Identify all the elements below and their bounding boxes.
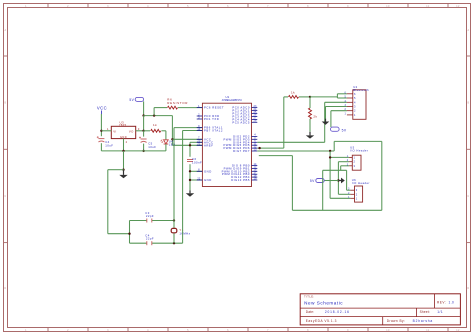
svg-text:GND: GND [204,169,212,173]
svg-text:2: 2 [348,192,350,195]
svg-text:6: 6 [227,5,229,8]
svg-text:9: 9 [347,329,349,332]
svg-text:16MHz: 16MHz [179,231,190,235]
svg-text:ATMEGA328P-PU: ATMEGA328P-PU [222,98,242,102]
svg-text:Bluetooth: Bluetooth [353,88,369,92]
svg-text:1: 1 [345,112,347,115]
svg-text:6: 6 [354,92,356,96]
svg-text:10uF: 10uF [148,145,156,149]
svg-text:7: 7 [267,329,269,332]
svg-text:VCC: VCC [97,106,107,111]
svg-text:6: 6 [227,329,229,332]
svg-text:DIG13 PB5: DIG13 PB5 [231,178,250,182]
svg-text:D: D [467,287,469,290]
svg-text:5V: 5V [342,128,347,132]
svg-text:3: 3 [347,163,349,166]
svg-text:1: 1 [107,127,109,131]
svg-text:10uF: 10uF [105,143,113,147]
svg-text:5: 5 [345,96,347,99]
svg-text:REV:: REV: [437,301,446,305]
svg-text:2: 2 [354,109,356,113]
svg-text:8: 8 [307,5,309,8]
svg-text:B2harsha: B2harsha [413,319,433,323]
svg-text:2: 2 [67,5,69,8]
svg-text:Sheet:: Sheet: [420,310,430,314]
svg-text:2: 2 [126,140,128,144]
svg-text:1k: 1k [291,90,295,94]
svg-text:PB7 XTAL2: PB7 XTAL2 [204,129,223,133]
svg-text:1: 1 [356,196,358,200]
svg-text:3: 3 [107,5,109,8]
svg-text:1: 1 [25,5,27,8]
svg-text:1: 1 [25,329,27,332]
svg-text:10: 10 [386,329,390,332]
svg-text:I\O Header: I\O Header [352,181,370,185]
svg-text:VO: VO [129,130,134,134]
svg-text:11: 11 [426,329,430,332]
svg-text:5V: 5V [310,179,315,183]
svg-text:11: 11 [426,5,430,8]
svg-text:LED: LED [169,143,176,147]
svg-text:C: C [467,195,469,198]
svg-text:3: 3 [345,104,347,107]
svg-text:2018-02-16: 2018-02-16 [325,310,350,314]
svg-text:3: 3 [356,188,358,192]
svg-text:TITLE:: TITLE: [304,295,314,299]
svg-text:1: 1 [347,155,349,158]
svg-text:4: 4 [147,5,149,8]
svg-text:3: 3 [354,164,356,168]
svg-text:EasyEDA V5.1.3: EasyEDA V5.1.3 [306,319,337,323]
svg-text:RESISTOR: RESISTOR [167,101,188,105]
svg-text:3: 3 [348,188,350,191]
svg-text:2: 2 [67,329,69,332]
svg-text:D: D [4,287,6,290]
svg-text:22pF: 22pF [146,214,154,218]
svg-text:4: 4 [345,100,347,103]
svg-text:1: 1 [348,196,350,199]
svg-text:28: 28 [254,120,257,123]
svg-text:PC5 ADC5: PC5 ADC5 [232,120,250,124]
svg-text:A: A [4,29,6,32]
svg-text:22: 22 [197,177,200,180]
svg-text:9: 9 [347,5,349,8]
svg-text:8: 8 [307,329,309,332]
svg-text:1: 1 [354,155,356,159]
svg-text:I\O Header: I\O Header [350,149,368,153]
svg-text:22pF: 22pF [146,237,154,241]
svg-text:2: 2 [345,108,347,111]
svg-text:2: 2 [356,192,358,196]
svg-text:19: 19 [254,177,257,180]
svg-text:6: 6 [345,91,347,94]
svg-text:4: 4 [147,329,149,332]
svg-text:2: 2 [354,160,356,164]
svg-text:VI: VI [113,130,117,134]
svg-text:5: 5 [187,329,189,332]
svg-text:4: 4 [354,100,356,104]
svg-text:B: B [4,102,6,105]
svg-text:5: 5 [354,96,356,100]
svg-text:PC6 RESET: PC6 RESET [204,106,224,110]
svg-text:1: 1 [354,113,356,117]
svg-text:3: 3 [138,127,140,131]
svg-text:New Schematic: New Schematic [304,301,343,306]
svg-text:10: 10 [197,128,200,131]
svg-text:Drawn By:: Drawn By: [387,319,406,323]
svg-text:AREF: AREF [204,143,213,147]
svg-text:1/1: 1/1 [437,310,443,314]
svg-text:C: C [4,195,6,198]
svg-text:DIG7 PD7: DIG7 PD7 [233,149,250,153]
svg-text:21: 21 [197,143,200,146]
svg-text:1k: 1k [153,123,157,127]
svg-text:A: A [467,29,469,32]
svg-text:12: 12 [456,329,460,332]
svg-text:GND: GND [204,178,212,182]
svg-text:7805: 7805 [119,123,127,127]
svg-text:10: 10 [386,5,390,8]
svg-text:5V: 5V [129,98,134,102]
svg-text:7: 7 [267,5,269,8]
svg-text:3: 3 [107,329,109,332]
svg-text:1.0: 1.0 [449,301,455,305]
svg-text:2k: 2k [313,115,317,119]
svg-text:2: 2 [347,159,349,162]
svg-text:5: 5 [187,5,189,8]
svg-text:3: 3 [354,105,356,109]
svg-text:B: B [467,102,469,105]
svg-text:GND: GND [120,135,127,139]
svg-text:100nF: 100nF [192,161,202,165]
svg-text:13: 13 [254,148,257,151]
svg-text:12: 12 [456,5,460,8]
svg-text:Date:: Date: [306,310,315,314]
svg-text:PD1 TXD: PD1 TXD [204,117,219,121]
